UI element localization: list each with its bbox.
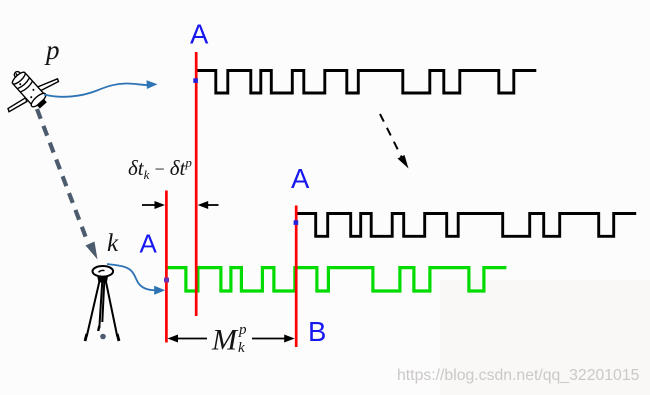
svg-text:A: A [291, 163, 310, 194]
red epoch line at satellite code start [195, 52, 198, 316]
svg-text:A: A [190, 19, 209, 50]
measurement arrow M left part [175, 338, 207, 340]
dashed signal path satellite to receiver [37, 109, 88, 243]
red epoch line at received code start [295, 206, 298, 348]
purple dot at replica code start [164, 278, 169, 283]
dashed arrow code shift [380, 114, 402, 158]
receiver replica PRN code waveform (green) [166, 268, 506, 291]
red epoch line at replica code start [165, 191, 168, 343]
blue dot on received epoch line [294, 220, 299, 225]
svg-text:M: M [211, 324, 239, 357]
right inward arrow [207, 204, 219, 206]
receiver tripod k [85, 266, 119, 341]
left inward arrow [142, 204, 156, 206]
svg-text:k: k [107, 230, 119, 257]
blue dot on epoch line [193, 78, 198, 83]
plumb dot [100, 334, 106, 340]
svg-text:p: p [238, 322, 247, 338]
blue arrow receiver to replica code [107, 264, 155, 290]
svg-text:https://blog.csdn.net/qq_32201: https://blog.csdn.net/qq_32201015 [397, 367, 640, 384]
arrowhead of dashed path [86, 242, 98, 260]
measurement arrow M right part [252, 338, 287, 340]
svg-text:p: p [44, 35, 60, 65]
svg-text:δtk − δtp: δtk − δtp [128, 155, 192, 182]
svg-text:k: k [238, 340, 245, 356]
satellite p icon [8, 79, 59, 112]
received PRN code waveform (delayed) [296, 214, 636, 237]
satellite PRN code waveform (top) [196, 71, 536, 94]
blue arrow satellite to code A [44, 84, 150, 97]
svg-text:A: A [140, 229, 158, 259]
svg-text:B: B [308, 316, 326, 347]
